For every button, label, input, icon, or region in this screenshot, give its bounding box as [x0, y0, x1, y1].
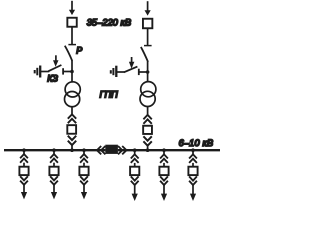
arrow F5 outgoing [161, 194, 167, 201]
drawout contact chevrons down (right main) [143, 136, 151, 145]
wire F4 tail [134, 185, 136, 194]
short-circuiter right fixed contact tick [138, 69, 140, 75]
wire KZ tick to main line [63, 71, 72, 73]
wire T2 to drawout breaker [147, 106, 149, 115]
arrow KZ actuator [55, 55, 57, 61]
drawout contact chevrons up (left main) [68, 114, 76, 123]
wire F3 to box [83, 163, 85, 167]
breaker F4 box [130, 167, 139, 175]
wire right KZ tick to main line [139, 71, 148, 73]
node junction dot F6 [191, 148, 195, 152]
transformer T1 (left, two windings) [65, 82, 80, 97]
drawout contact chevrons left of section switch [97, 146, 106, 154]
wire F5 stem [163, 150, 165, 154]
bus section 2 (6-10 kV, right) [118, 149, 220, 151]
breaker F3 box [79, 167, 88, 175]
drawout chevrons up F1 [20, 154, 28, 163]
drawout chevrons down F4 [131, 176, 139, 185]
breaker F1 box [19, 167, 28, 175]
node junction dot F3 [82, 148, 86, 152]
breaker Q3 (right HV circuit breaker, square) [143, 19, 152, 29]
node junction dot F2 [52, 148, 56, 152]
wire Q1 to disconnector [71, 27, 73, 45]
drawout chevrons down F6 [189, 176, 197, 185]
drawout chevrons down F5 [160, 176, 168, 185]
feeder F4 x=134.7 [130, 148, 139, 201]
disconnector right (fixed contact tick) [144, 45, 152, 47]
drawout chevrons up F2 [50, 154, 58, 163]
arrow power-flow down (right infeed) [145, 10, 151, 15]
arrow right KZ actuator [131, 57, 133, 63]
wire F2 tail [53, 185, 55, 193]
node junction dot T1 on bus [70, 148, 74, 152]
wire F6 stem [192, 150, 194, 154]
wire F2 stem [53, 150, 55, 154]
node junction dot left KZ tap [70, 70, 74, 74]
node junction dot T2 on bus [146, 148, 150, 152]
feeder F6 x=193 [188, 148, 197, 201]
drawout chevrons down F3 [80, 176, 88, 185]
node junction dot right KZ tap [146, 70, 150, 74]
node junction dot F4 [133, 148, 137, 152]
wire F5 to box [163, 163, 165, 166]
wire Q4 to bus [147, 145, 149, 150]
wire F6 tail [192, 185, 194, 194]
wire ground to KZ pivot [41, 71, 49, 73]
wire incoming supply line left [71, 1, 73, 11]
wire F3 stem [83, 150, 85, 154]
drawout contact chevrons down (left main) [68, 136, 76, 145]
short-circuiter KZ fixed contact tick [62, 68, 64, 74]
short-circuiter right blade [124, 67, 138, 73]
breaker F2 box [49, 167, 58, 175]
arrow F4 outgoing [132, 194, 138, 201]
drawout chevrons down F1 [20, 176, 28, 185]
ground (right earth, rotated bars) [111, 66, 117, 77]
wire F5 tail [163, 185, 165, 194]
wire Q3 to disconnector [147, 28, 149, 45]
wire F6 to box [192, 163, 194, 166]
wire F1 to box [23, 163, 25, 167]
disconnector right blade [141, 47, 148, 62]
wire Q2 to bus [71, 145, 73, 151]
node junction dot F1 [22, 148, 26, 152]
feeder F5 x=164 [159, 148, 168, 201]
wire F2 to box [53, 163, 55, 167]
wire ground to right KZ pivot [117, 71, 124, 73]
arrow F3 outgoing [81, 192, 87, 199]
feeder F3 x=84 [79, 148, 88, 199]
breaker F5 box [159, 167, 168, 175]
breaker F6 box [188, 167, 197, 175]
drawout chevrons up F6 [189, 154, 197, 163]
ground (left earth, rotated bars) [35, 66, 41, 78]
bus section 1 (6-10 kV, left) [4, 149, 105, 151]
wire F3 tail [83, 185, 85, 193]
drawout chevrons down F2 [50, 176, 58, 185]
feeders group [19, 148, 197, 201]
disconnector P blade [65, 46, 72, 61]
arrow F1 outgoing [21, 192, 27, 199]
wire F1 stem [23, 150, 25, 154]
wire incoming supply line right [147, 1, 149, 11]
drawout contact chevrons right of section switch [118, 146, 127, 154]
breaker Q1 (left HV circuit breaker, square) [67, 18, 76, 27]
arrow F6 outgoing [190, 194, 196, 201]
breaker Q4 (right main LV breaker) [143, 126, 152, 134]
drawout chevrons up F5 [160, 154, 168, 163]
wire F1 tail [23, 185, 25, 193]
drawout contact chevrons up (right main) [143, 115, 151, 124]
disconnector P (fixed contact tick) [68, 44, 76, 46]
breaker Q2 (left main LV breaker) [67, 125, 76, 134]
wire disconnector to transformer [71, 60, 73, 82]
wire disconnector to transformer right [147, 61, 149, 82]
wire T1 to drawout breaker [71, 107, 73, 115]
drawout chevrons up F4 [131, 154, 139, 163]
short-circuiter KZ blade [48, 65, 61, 71]
transformer T2 (right, two windings) [141, 82, 156, 97]
arrow power-flow down (left infeed) [69, 10, 75, 15]
arrow F2 outgoing [51, 192, 57, 199]
drawout chevrons up F3 [80, 154, 88, 163]
feeder F1 x=24 [19, 148, 28, 199]
feeder F2 x=54 [49, 148, 58, 199]
reactor/section switch (filled) [105, 145, 118, 154]
node junction dot F5 [162, 148, 166, 152]
wire F4 to box [134, 163, 136, 166]
wire F4 stem [134, 150, 136, 154]
